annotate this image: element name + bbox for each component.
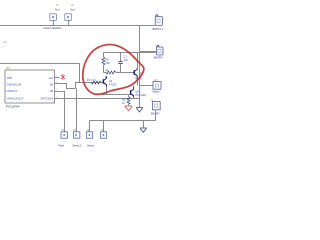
- pad pin marks: [65, 142, 106, 144]
- svg-text:Park: Park: [59, 143, 65, 147]
- wire base line Q3: [116, 72, 134, 74]
- connector J4 box: [151, 99, 161, 116]
- switch SW1: [50, 4, 61, 20]
- svg-text:1PVT1014: 1PVT1014: [41, 97, 54, 101]
- wire motor feed: [140, 85, 154, 87]
- svg-text:CM5/CL1: CM5/CL1: [7, 89, 19, 93]
- wire J4 drop: [155, 110, 157, 121]
- wire pin4 rail: [55, 98, 140, 100]
- wire Q3 emitter: [137, 78, 139, 86]
- annotation red ellipse: [83, 45, 144, 95]
- wire collector top rail: [104, 52, 157, 54]
- switch SW2: [65, 4, 76, 20]
- pad P2: [72, 129, 82, 148]
- wire pad sq3 drop: [89, 121, 91, 132]
- IC U1: [5, 66, 55, 103]
- ground G1 red: [125, 106, 133, 111]
- svg-text:Sw2: Sw2: [70, 9, 75, 12]
- wire Q4 emitter to rail: [133, 98, 135, 99]
- wire to pad sq2: [76, 89, 78, 132]
- wire right vertical: [139, 26, 141, 108]
- svg-text:4702Q: 4702Q: [109, 83, 116, 86]
- wire mid rail: [0, 63, 80, 65]
- svg-text:Servo: Servo: [87, 143, 95, 147]
- svg-text:1NB: 1NB: [7, 76, 12, 80]
- wire top rail: [0, 25, 155, 27]
- wire Q4 collector: [133, 86, 135, 88]
- pad P4: [100, 129, 106, 138]
- svg-text:1A1: 1A1: [48, 76, 53, 80]
- resistor R4: [104, 69, 117, 79]
- ground G2: [136, 108, 143, 112]
- capacitor C1: [118, 53, 128, 73]
- transistor Q3: [134, 68, 143, 81]
- ground G3: [140, 128, 147, 132]
- svg-text:Down Switch: Down Switch: [44, 26, 62, 30]
- motor M1: [153, 78, 162, 94]
- wire battery2 feed: [140, 51, 157, 53]
- svg-text:Sw1: Sw1: [55, 9, 60, 12]
- wire pin3 run: [55, 92, 65, 132]
- svg-text:2B: 2B: [50, 83, 53, 87]
- wire pad sq4 drop: [103, 121, 105, 132]
- svg-text:Servo 1: Servo 1: [72, 143, 82, 147]
- battery BAT2: [154, 45, 164, 59]
- resistor R5: [122, 95, 130, 106]
- svg-text:C1: C1: [124, 55, 128, 59]
- pad P1: [59, 129, 68, 148]
- wire Q3 collector: [137, 53, 139, 68]
- annotation red scribble pin1: [61, 74, 65, 80]
- svg-text:BATRY +: BATRY +: [153, 27, 164, 31]
- wire Q4 base rail: [102, 94, 130, 96]
- wire Q2 emitter: [106, 87, 108, 95]
- transistor Q4: [131, 87, 147, 99]
- svg-text:4.7k: 4.7k: [91, 79, 96, 82]
- svg-text:PIC16F84: PIC16F84: [6, 105, 20, 109]
- svg-text:R6: R6: [106, 58, 110, 62]
- wire pin1 stub: [55, 77, 60, 79]
- svg-text:CM5/DI/LGB: CM5/DI/LGB: [7, 83, 22, 87]
- transistor Q2: [87, 76, 113, 87]
- svg-text:10n: 10n: [124, 58, 129, 62]
- pin numbers: [56, 76, 58, 99]
- wire switch S2 stub: [68, 20, 70, 25]
- wire bottom rail: [90, 120, 156, 122]
- svg-text:BATRY -: BATRY -: [154, 56, 164, 60]
- pad P3: [86, 129, 94, 148]
- wire ground3 drop: [143, 121, 145, 128]
- svg-text:CM4/CLKOUT: CM4/CLKOUT: [7, 97, 24, 101]
- svg-text:PN2222A: PN2222A: [135, 94, 146, 97]
- battery BAT1: [153, 15, 164, 31]
- wire switch S1 stub: [53, 20, 55, 25]
- svg-text:10k: 10k: [106, 61, 111, 65]
- resistor R6: [102, 53, 110, 73]
- resistor R3: [91, 79, 116, 86]
- svg-text:Motor: Motor: [153, 90, 160, 94]
- svg-text:R5: R5: [122, 98, 126, 102]
- wire mid rail drop: [79, 64, 81, 83]
- svg-text:IC1: IC1: [6, 66, 11, 70]
- wire pin2 run: [55, 84, 76, 89]
- wire pin2 riser: [76, 83, 104, 89]
- svg-text:1M: 1M: [49, 89, 53, 93]
